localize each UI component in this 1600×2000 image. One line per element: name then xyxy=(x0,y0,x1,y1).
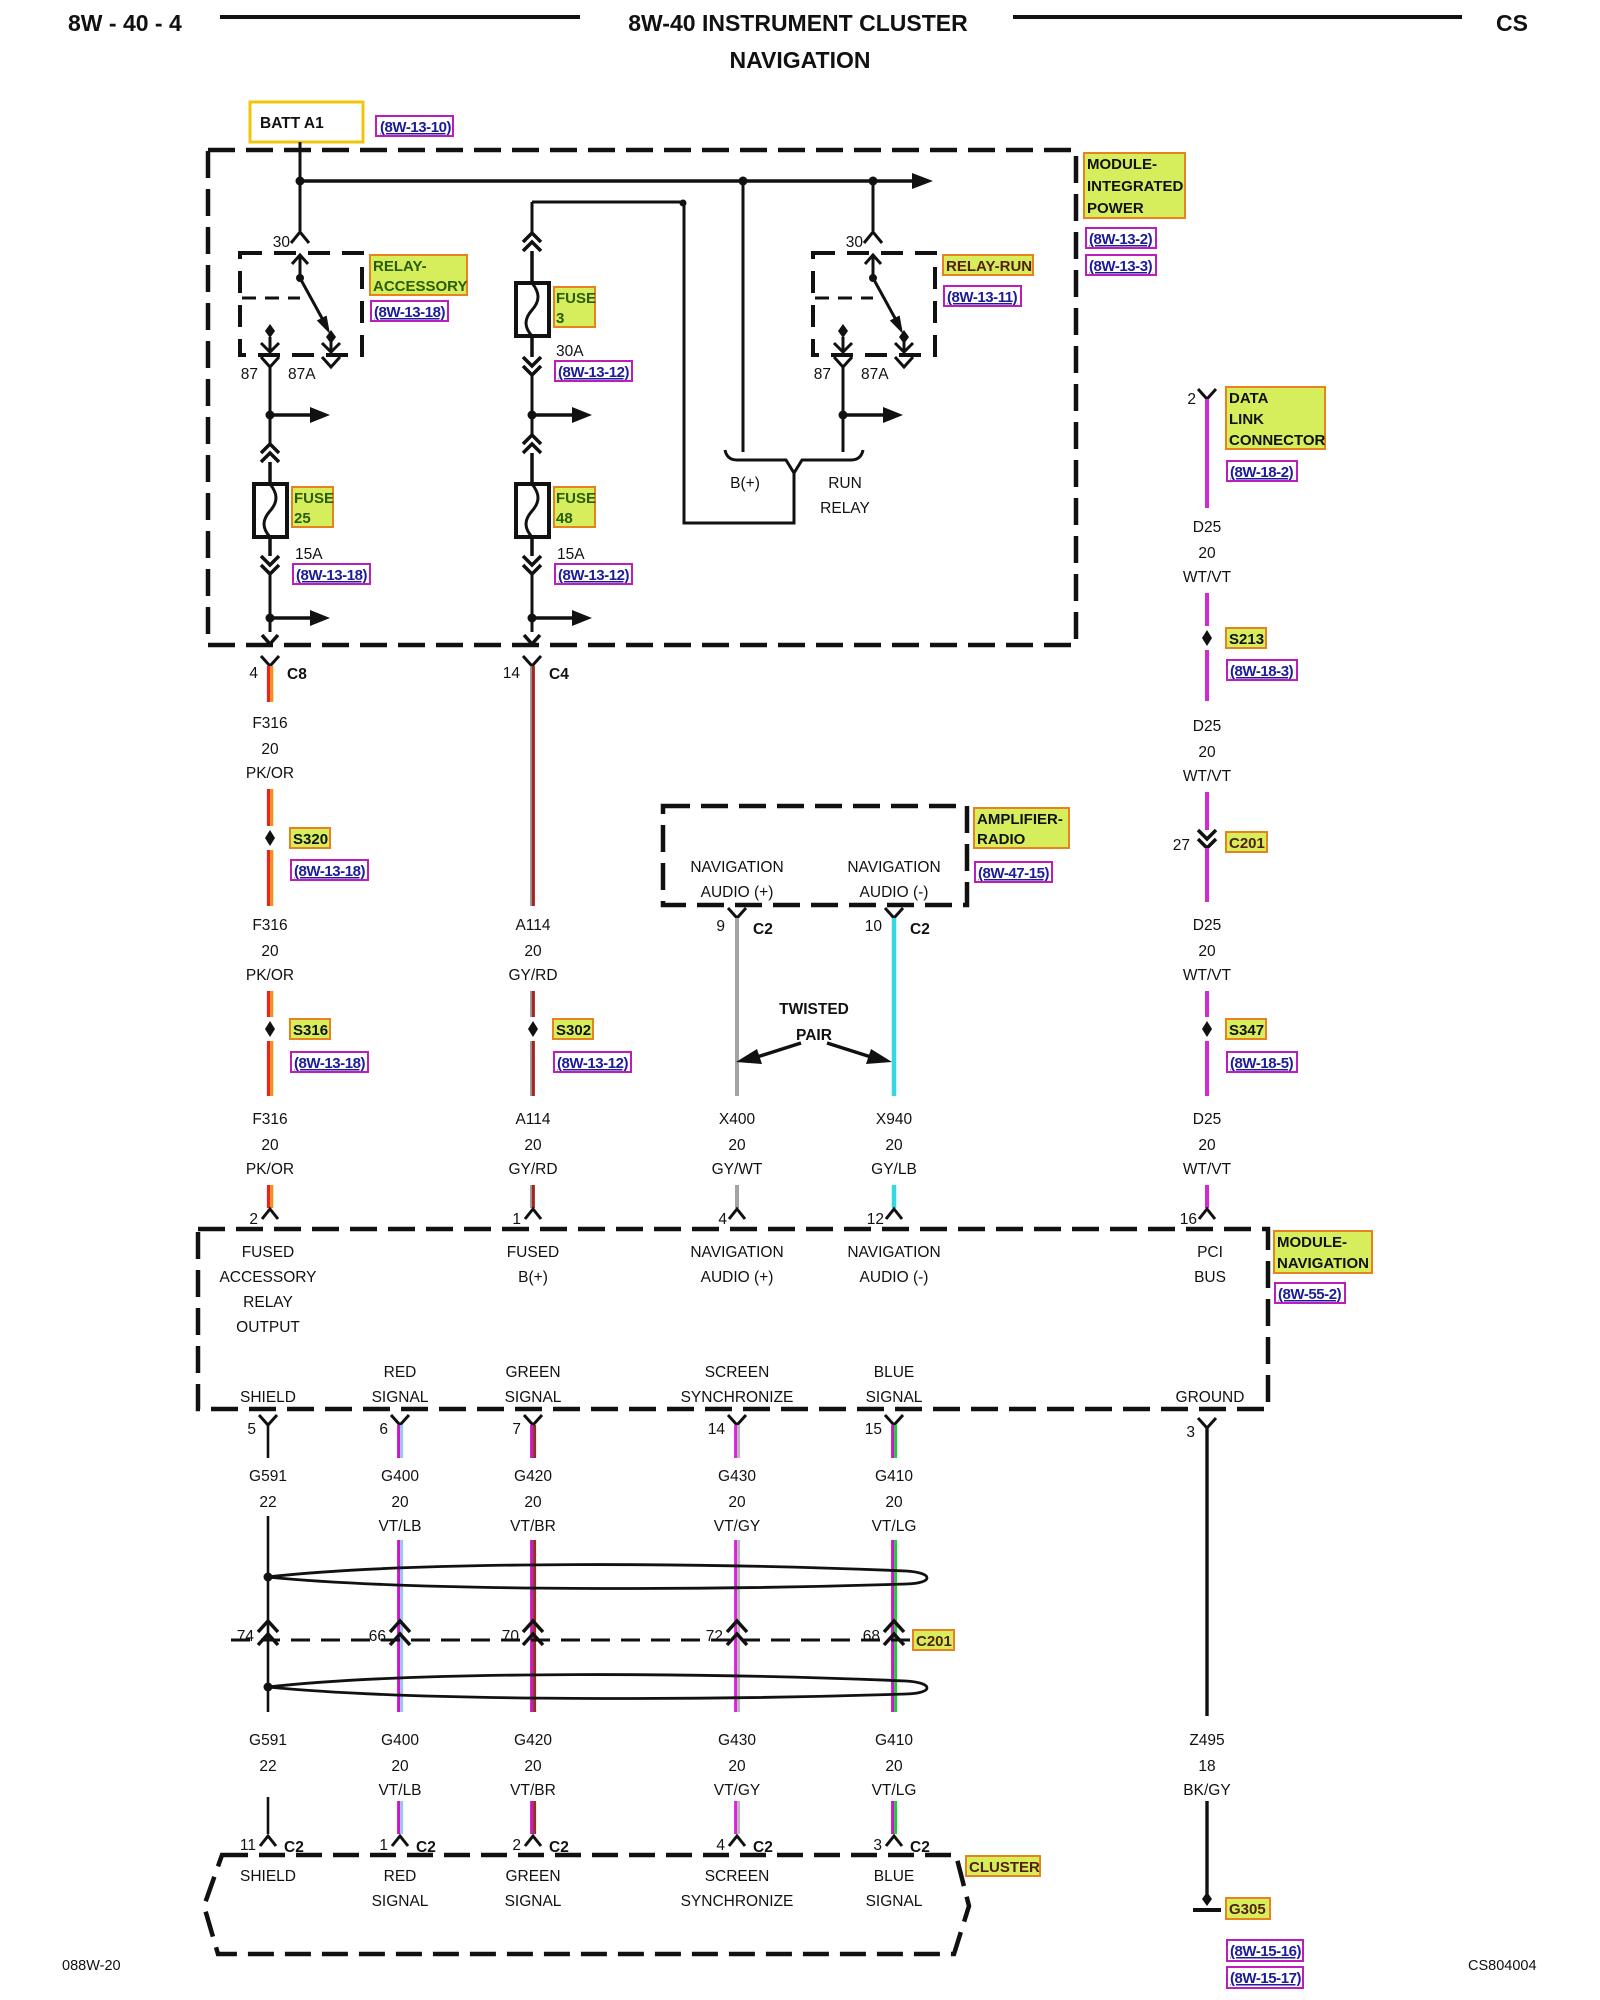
wire G400 segment 2 xyxy=(399,1540,402,1712)
arrow into box edge xyxy=(524,635,540,644)
svg-text:RELAY: RELAY xyxy=(820,500,870,517)
svg-text:CS804004: CS804004 xyxy=(1468,1958,1537,1974)
svg-text:SHIELD: SHIELD xyxy=(240,1868,296,1885)
wire fuse 48 output xyxy=(531,574,534,632)
wire F316 segment 3 xyxy=(269,850,272,906)
svg-text:1: 1 xyxy=(512,1211,521,1228)
svg-text:RELAY-RUN: RELAY-RUN xyxy=(946,258,1032,275)
wire G410 segment 3 xyxy=(893,1801,896,1834)
wire G591 segment 3 xyxy=(267,1797,270,1834)
svg-text:20: 20 xyxy=(728,1137,746,1154)
ground G305 xyxy=(1202,1892,1212,1906)
svg-text:GREEN: GREEN xyxy=(505,1868,560,1885)
svg-text:MODULE-: MODULE- xyxy=(1277,1234,1347,1251)
wire X940 segment 2 xyxy=(892,1185,897,1208)
fused b+ feed line xyxy=(532,201,684,204)
wire G430 VT/GY segment 1 xyxy=(736,1425,739,1458)
svg-text:11: 11 xyxy=(240,1837,256,1854)
svg-text:SCREEN: SCREEN xyxy=(705,1868,770,1885)
wire A114 segment 4 xyxy=(531,1185,533,1208)
arrow tap right at 87 xyxy=(270,413,312,417)
svg-text:S316: S316 xyxy=(293,1022,328,1039)
svg-text:22: 22 xyxy=(259,1494,276,1511)
wire X400 segment 2 xyxy=(735,1185,739,1208)
svg-text:GROUND: GROUND xyxy=(1176,1389,1245,1406)
svg-text:68: 68 xyxy=(863,1628,880,1645)
svg-text:SIGNAL: SIGNAL xyxy=(372,1389,429,1406)
svg-text:(8W-13-11): (8W-13-11) xyxy=(947,289,1018,306)
svg-text:NAVIGATION: NAVIGATION xyxy=(847,1244,940,1261)
svg-text:RUN: RUN xyxy=(828,475,862,492)
svg-text:S302: S302 xyxy=(556,1022,591,1039)
svg-text:AMPLIFIER-: AMPLIFIER- xyxy=(977,811,1063,828)
svg-text:72: 72 xyxy=(706,1628,723,1645)
svg-text:(8W-13-3): (8W-13-3) xyxy=(1089,258,1153,275)
node bus junction at batt xyxy=(296,177,305,186)
label FUSE 25 xyxy=(292,487,333,527)
svg-text:20: 20 xyxy=(261,1137,279,1154)
svg-text:VT/LG: VT/LG xyxy=(872,1518,917,1535)
svg-text:VT/LG: VT/LG xyxy=(872,1782,917,1799)
wire brace output to fused b+ feed xyxy=(684,202,794,523)
svg-text:A114: A114 xyxy=(515,1111,550,1128)
wire relay-accessory 87 down xyxy=(269,367,272,444)
label FUSE 3 xyxy=(554,287,595,327)
relay-run dashed box xyxy=(813,253,935,355)
svg-text:9: 9 xyxy=(716,918,725,935)
svg-text:BLUE: BLUE xyxy=(874,1364,915,1381)
svg-text:VT/BR: VT/BR xyxy=(510,1518,556,1535)
svg-text:C4: C4 xyxy=(549,666,569,683)
label CLUSTER xyxy=(966,1856,1040,1876)
svg-text:VT/GY: VT/GY xyxy=(714,1782,761,1799)
node shield junction lower xyxy=(264,1683,273,1692)
svg-text:20: 20 xyxy=(885,1137,903,1154)
shield lens lower xyxy=(268,1675,927,1699)
svg-text:WT/VT: WT/VT xyxy=(1183,768,1232,785)
svg-text:(8W-13-12): (8W-13-12) xyxy=(558,567,630,584)
svg-text:NAVIGATION: NAVIGATION xyxy=(730,47,871,73)
inline connector chevrons above fuse 25 xyxy=(261,444,279,462)
svg-text:20: 20 xyxy=(1198,545,1216,562)
wire into fuse 48 xyxy=(530,453,534,484)
svg-text:G430: G430 xyxy=(718,1468,756,1485)
fuse 25 xyxy=(254,484,287,537)
svg-text:14: 14 xyxy=(708,1421,726,1438)
wire D25 segment 7 xyxy=(1205,1041,1209,1096)
link 8W-13-18 xyxy=(293,564,370,584)
svg-text:POWER: POWER xyxy=(1087,200,1144,217)
svg-text:(8W-13-18): (8W-13-18) xyxy=(294,1055,366,1072)
node 87 junction xyxy=(266,411,275,420)
node shield junction upper xyxy=(264,1573,273,1582)
relay-run switch pivot xyxy=(869,274,877,282)
svg-text:74: 74 xyxy=(237,1628,255,1645)
wire below fuse 3 xyxy=(530,336,534,357)
svg-text:GREEN: GREEN xyxy=(505,1364,560,1381)
wire G410 VT/LG segment 1 xyxy=(893,1425,896,1458)
svg-text:SIGNAL: SIGNAL xyxy=(866,1893,923,1910)
svg-text:CLUSTER: CLUSTER xyxy=(969,1859,1040,1876)
svg-text:(8W-13-18): (8W-13-18) xyxy=(296,567,368,584)
svg-text:FUSED: FUSED xyxy=(242,1244,295,1261)
svg-text:16: 16 xyxy=(1180,1211,1197,1228)
svg-text:G420: G420 xyxy=(514,1732,552,1749)
svg-text:TWISTED: TWISTED xyxy=(779,1001,849,1018)
svg-text:S213: S213 xyxy=(1229,631,1264,648)
wire F316 segment 2 xyxy=(269,789,272,826)
wire fuse 25 output xyxy=(269,574,272,632)
amplifier-radio dashed box xyxy=(663,806,967,905)
battery feed box BATT A1 xyxy=(250,102,363,142)
svg-text:SHIELD: SHIELD xyxy=(240,1389,296,1406)
svg-text:B(+): B(+) xyxy=(730,475,760,492)
svg-text:F316: F316 xyxy=(252,917,287,934)
svg-text:15: 15 xyxy=(865,1421,882,1438)
link 8W-18-2 xyxy=(1227,461,1297,481)
link 8W-13-2 xyxy=(1086,228,1156,248)
svg-text:FUSE: FUSE xyxy=(556,490,596,507)
svg-text:NAVIGATION: NAVIGATION xyxy=(847,859,940,876)
inline connector chevrons below fuse 25 xyxy=(261,556,279,574)
svg-text:D25: D25 xyxy=(1193,718,1221,735)
svg-text:20: 20 xyxy=(391,1494,409,1511)
link 8W-47-15 xyxy=(975,862,1052,882)
svg-text:G410: G410 xyxy=(875,1732,913,1749)
svg-text:20: 20 xyxy=(524,1758,542,1775)
svg-text:VT/LB: VT/LB xyxy=(378,1782,421,1799)
svg-text:S347: S347 xyxy=(1229,1022,1264,1039)
wire D25 segment 3 xyxy=(1205,650,1209,701)
svg-text:20: 20 xyxy=(261,741,279,758)
relay-accessory 87A contact stub xyxy=(322,338,340,352)
svg-text:(8W-55-2): (8W-55-2) xyxy=(1278,1286,1342,1303)
svg-text:87: 87 xyxy=(241,366,258,383)
wire A114 segment 2 xyxy=(531,991,533,1017)
brace grouping B+ and run relay xyxy=(725,450,863,473)
wire F316 segment 5 xyxy=(269,1041,272,1096)
svg-text:PK/OR: PK/OR xyxy=(246,1161,294,1178)
splice S320 xyxy=(265,830,275,846)
relay-accessory pin-30 arrow inside xyxy=(292,255,308,276)
svg-text:2: 2 xyxy=(1187,391,1196,408)
header rule right xyxy=(1013,15,1462,19)
wire below fuse 25 xyxy=(268,537,272,556)
svg-text:PK/OR: PK/OR xyxy=(246,765,294,782)
svg-text:X400: X400 xyxy=(719,1111,756,1128)
wire F316 PK/OR segment 1 xyxy=(269,666,272,702)
wire G430 segment 3 xyxy=(736,1801,739,1834)
svg-text:20: 20 xyxy=(1198,943,1216,960)
svg-text:FUSE: FUSE xyxy=(294,490,334,507)
svg-text:AUDIO (+): AUDIO (+) xyxy=(701,1269,774,1286)
svg-text:WT/VT: WT/VT xyxy=(1183,967,1232,984)
shield lens upper xyxy=(267,1565,927,1589)
link 8W-13-10 xyxy=(376,116,453,136)
svg-text:RED: RED xyxy=(384,1364,417,1381)
svg-text:48: 48 xyxy=(556,510,573,527)
link 8W-13-12 xyxy=(555,361,632,381)
node junction xyxy=(528,614,537,623)
svg-text:RELAY-: RELAY- xyxy=(373,258,427,275)
wire G420 segment 2 xyxy=(532,1540,535,1712)
svg-text:DATA: DATA xyxy=(1229,390,1269,407)
bus exit arrow right xyxy=(912,173,933,189)
relay-accessory 87 contact stub xyxy=(261,337,279,352)
svg-text:3: 3 xyxy=(556,310,564,327)
svg-text:C8: C8 xyxy=(287,666,307,683)
relay-accessory switch arm xyxy=(300,278,323,320)
svg-text:G430: G430 xyxy=(718,1732,756,1749)
relay-run pin-30 arrow inside xyxy=(865,255,881,276)
svg-text:BATT A1: BATT A1 xyxy=(260,115,324,132)
svg-text:CS: CS xyxy=(1496,10,1528,36)
svg-text:INTEGRATED: INTEGRATED xyxy=(1087,178,1184,195)
node bus junction relay-run drop xyxy=(869,177,878,186)
svg-text:18: 18 xyxy=(1198,1758,1215,1775)
svg-text:66: 66 xyxy=(369,1628,386,1645)
svg-text:B(+): B(+) xyxy=(518,1269,548,1286)
link 8W-18-5 xyxy=(1227,1052,1297,1072)
arrow into box edge xyxy=(262,635,278,644)
svg-text:ACCESSORY: ACCESSORY xyxy=(373,278,467,295)
svg-text:20: 20 xyxy=(885,1758,903,1775)
svg-text:RADIO: RADIO xyxy=(977,831,1026,848)
inline connector chevrons above fuse 3 xyxy=(523,233,541,251)
module-integrated power dashed box xyxy=(208,150,1076,645)
svg-text:NAVIGATION: NAVIGATION xyxy=(690,859,783,876)
svg-text:20: 20 xyxy=(1198,744,1216,761)
svg-text:SYNCHRONIZE: SYNCHRONIZE xyxy=(681,1389,794,1406)
splice S347 xyxy=(1202,1021,1212,1037)
svg-text:X940: X940 xyxy=(876,1111,913,1128)
svg-text:GY/LB: GY/LB xyxy=(871,1161,917,1178)
wire X400 GY/WT xyxy=(735,918,739,1096)
svg-text:C2: C2 xyxy=(753,921,773,938)
svg-text:3: 3 xyxy=(1186,1424,1195,1441)
svg-text:AUDIO (-): AUDIO (-) xyxy=(860,884,929,901)
svg-text:10: 10 xyxy=(865,918,883,935)
svg-text:(8W-15-17): (8W-15-17) xyxy=(1230,1970,1302,1987)
svg-text:(8W-13-10): (8W-13-10) xyxy=(380,119,452,136)
svg-text:C201: C201 xyxy=(916,1633,952,1650)
svg-text:C201: C201 xyxy=(1229,835,1265,852)
wire D25 segment 4 xyxy=(1205,792,1209,830)
relay-accessory coil dashed line xyxy=(242,297,300,300)
wire below fuse 48 xyxy=(530,537,534,556)
svg-text:20: 20 xyxy=(728,1494,746,1511)
fuse 48 xyxy=(516,484,549,537)
svg-text:30A: 30A xyxy=(556,343,584,360)
link 8W-55-2 xyxy=(1275,1283,1345,1303)
svg-text:12: 12 xyxy=(867,1211,884,1228)
svg-text:PCI: PCI xyxy=(1197,1244,1223,1261)
svg-text:SIGNAL: SIGNAL xyxy=(866,1389,923,1406)
svg-text:SYNCHRONIZE: SYNCHRONIZE xyxy=(681,1893,794,1910)
svg-text:GY/RD: GY/RD xyxy=(508,1161,557,1178)
label C201 xyxy=(913,1630,954,1650)
wire main B+ bus xyxy=(300,179,914,183)
svg-text:C2: C2 xyxy=(910,921,930,938)
svg-text:NAVIGATION: NAVIGATION xyxy=(690,1244,783,1261)
link 8W-18-3 xyxy=(1227,660,1297,680)
link 8W-13-18 xyxy=(291,1052,368,1072)
link 8W-13-18 xyxy=(371,301,448,321)
relay-accessory switch pivot xyxy=(296,274,304,282)
wire relay-run 87 down to brace xyxy=(842,367,845,452)
svg-text:(8W-18-3): (8W-18-3) xyxy=(1230,663,1294,680)
svg-text:LINK: LINK xyxy=(1229,411,1264,428)
svg-text:BLUE: BLUE xyxy=(874,1868,915,1885)
svg-text:AUDIO (-): AUDIO (-) xyxy=(860,1269,929,1286)
wire D25 segment 8 xyxy=(1205,1185,1209,1208)
wire G410 segment 2 xyxy=(893,1540,896,1712)
svg-text:27: 27 xyxy=(1173,837,1190,854)
wire D25 segment 5 xyxy=(1205,848,1209,902)
svg-text:2: 2 xyxy=(512,1837,521,1854)
node bus junction B+ drop xyxy=(739,177,748,186)
svg-text:87A: 87A xyxy=(861,366,889,383)
wire F316 segment 4 xyxy=(269,991,272,1017)
wire D25 segment 6 xyxy=(1205,991,1209,1017)
header rule left xyxy=(220,15,580,19)
svg-text:20: 20 xyxy=(728,1758,746,1775)
label AMPLIFIER-RADIO xyxy=(974,808,1069,848)
module-navigation dashed box xyxy=(198,1229,1268,1409)
svg-text:30: 30 xyxy=(273,234,291,251)
svg-text:4: 4 xyxy=(249,665,258,682)
relay-run 87A contact stub xyxy=(895,338,913,352)
arrow twisted-pair left xyxy=(757,1043,801,1057)
label FUSE 48 xyxy=(554,487,595,527)
arrow tap right xyxy=(532,616,574,620)
svg-text:87: 87 xyxy=(814,366,831,383)
svg-text:SCREEN: SCREEN xyxy=(705,1364,770,1381)
splice S316 xyxy=(265,1021,275,1037)
svg-text:WT/VT: WT/VT xyxy=(1183,1161,1232,1178)
svg-text:AUDIO (+): AUDIO (+) xyxy=(701,884,774,901)
svg-text:G591: G591 xyxy=(249,1732,287,1749)
relay-accessory dashed box xyxy=(240,253,362,355)
svg-text:15A: 15A xyxy=(557,546,585,563)
wire D25 segment 2 xyxy=(1205,593,1209,626)
svg-text:BUS: BUS xyxy=(1194,1269,1226,1286)
inline connector chevrons above fuse 48 xyxy=(523,435,541,453)
svg-text:4: 4 xyxy=(716,1837,725,1854)
svg-text:20: 20 xyxy=(391,1758,409,1775)
svg-text:SIGNAL: SIGNAL xyxy=(372,1893,429,1910)
svg-text:14: 14 xyxy=(503,665,521,682)
label MODULE-NAVIGATION xyxy=(1274,1231,1372,1273)
relay-run switch arm xyxy=(873,278,896,320)
wire G400 VT/LB segment 1 xyxy=(399,1425,402,1458)
svg-text:RED: RED xyxy=(384,1868,417,1885)
node junction xyxy=(266,614,275,623)
label MODULE-INTEGRATED POWER xyxy=(1084,153,1185,218)
svg-text:(8W-13-12): (8W-13-12) xyxy=(557,1055,629,1072)
svg-text:5: 5 xyxy=(247,1421,256,1438)
wire down from feed line to fuse 3 xyxy=(531,202,534,233)
label RELAY-RUN xyxy=(943,255,1033,275)
inline connector chevrons below fuse 3 xyxy=(523,357,541,375)
svg-text:NAVIGATION: NAVIGATION xyxy=(1277,1255,1369,1272)
wire G591 segment 2 through shields xyxy=(267,1516,270,1712)
svg-text:(8W-13-18): (8W-13-18) xyxy=(294,863,366,880)
svg-text:A114: A114 xyxy=(515,917,550,934)
svg-text:SIGNAL: SIGNAL xyxy=(505,1389,562,1406)
link 8W-13-3 xyxy=(1086,255,1156,275)
link 8W-13-11 xyxy=(944,286,1021,306)
svg-text:GY/RD: GY/RD xyxy=(508,967,557,984)
svg-text:OUTPUT: OUTPUT xyxy=(236,1319,300,1336)
svg-text:F316: F316 xyxy=(252,715,287,732)
svg-text:4: 4 xyxy=(718,1211,727,1228)
svg-text:87A: 87A xyxy=(288,366,316,383)
svg-text:088W-20: 088W-20 xyxy=(62,1958,121,1974)
wire G591 shield segment 1 xyxy=(267,1425,270,1458)
svg-text:(8W-18-2): (8W-18-2) xyxy=(1230,464,1294,481)
svg-text:(8W-15-16): (8W-15-16) xyxy=(1230,1943,1302,1960)
svg-text:D25: D25 xyxy=(1193,1111,1221,1128)
label DATA LINK CONNECTOR xyxy=(1226,387,1325,449)
svg-text:(8W-13-12): (8W-13-12) xyxy=(558,364,630,381)
svg-text:G410: G410 xyxy=(875,1468,913,1485)
svg-text:RELAY: RELAY xyxy=(243,1294,293,1311)
svg-text:VT/LB: VT/LB xyxy=(378,1518,421,1535)
connector C201 dashed line xyxy=(231,1639,910,1642)
link 8W-15-17 xyxy=(1227,1967,1303,1988)
svg-text:6: 6 xyxy=(379,1421,388,1438)
svg-text:D25: D25 xyxy=(1193,519,1221,536)
node junction xyxy=(528,411,537,420)
arrow tap right at relay-run 87 xyxy=(843,413,885,417)
svg-text:WT/VT: WT/VT xyxy=(1183,569,1232,586)
svg-text:G305: G305 xyxy=(1229,1901,1266,1918)
svg-text:(8W-13-2): (8W-13-2) xyxy=(1089,231,1153,248)
svg-text:ACCESSORY: ACCESSORY xyxy=(219,1269,316,1286)
wire Z495 segment 2 xyxy=(1205,1801,1208,1898)
svg-text:MODULE-: MODULE- xyxy=(1087,156,1157,173)
wire BATT A1 down to bus xyxy=(299,142,302,181)
splice S213 xyxy=(1202,630,1212,646)
svg-text:FUSED: FUSED xyxy=(507,1244,560,1261)
svg-text:G400: G400 xyxy=(381,1468,419,1485)
svg-text:SIGNAL: SIGNAL xyxy=(505,1893,562,1910)
svg-text:G591: G591 xyxy=(249,1468,287,1485)
inline connector chevrons below fuse 48 xyxy=(523,556,541,574)
wire G420 segment 3 xyxy=(532,1801,535,1834)
svg-text:8W - 40 - 4: 8W - 40 - 4 xyxy=(68,10,182,36)
wire F316 segment 6 xyxy=(269,1185,272,1208)
wire Z495 ground segment 1 xyxy=(1205,1428,1208,1716)
svg-text:(8W-13-18): (8W-13-18) xyxy=(374,304,446,321)
svg-text:PK/OR: PK/OR xyxy=(246,967,294,984)
svg-text:2: 2 xyxy=(249,1211,258,1228)
wire B+ drop from bus to brace xyxy=(742,181,745,452)
link 8W-13-12 xyxy=(554,1052,631,1072)
wire fuse 3 output xyxy=(531,375,534,435)
svg-text:(8W-18-5): (8W-18-5) xyxy=(1230,1055,1294,1072)
wire G430 segment 2 xyxy=(736,1540,739,1712)
svg-text:30: 30 xyxy=(846,234,864,251)
svg-text:20: 20 xyxy=(524,1494,542,1511)
wire G420 VT/BR segment 1 xyxy=(532,1425,535,1458)
link 8W-13-18 xyxy=(291,860,368,880)
svg-text:FUSE: FUSE xyxy=(556,290,596,307)
wire A114 segment 3 xyxy=(531,1041,533,1096)
svg-text:20: 20 xyxy=(524,943,542,960)
svg-text:VT/GY: VT/GY xyxy=(714,1518,761,1535)
